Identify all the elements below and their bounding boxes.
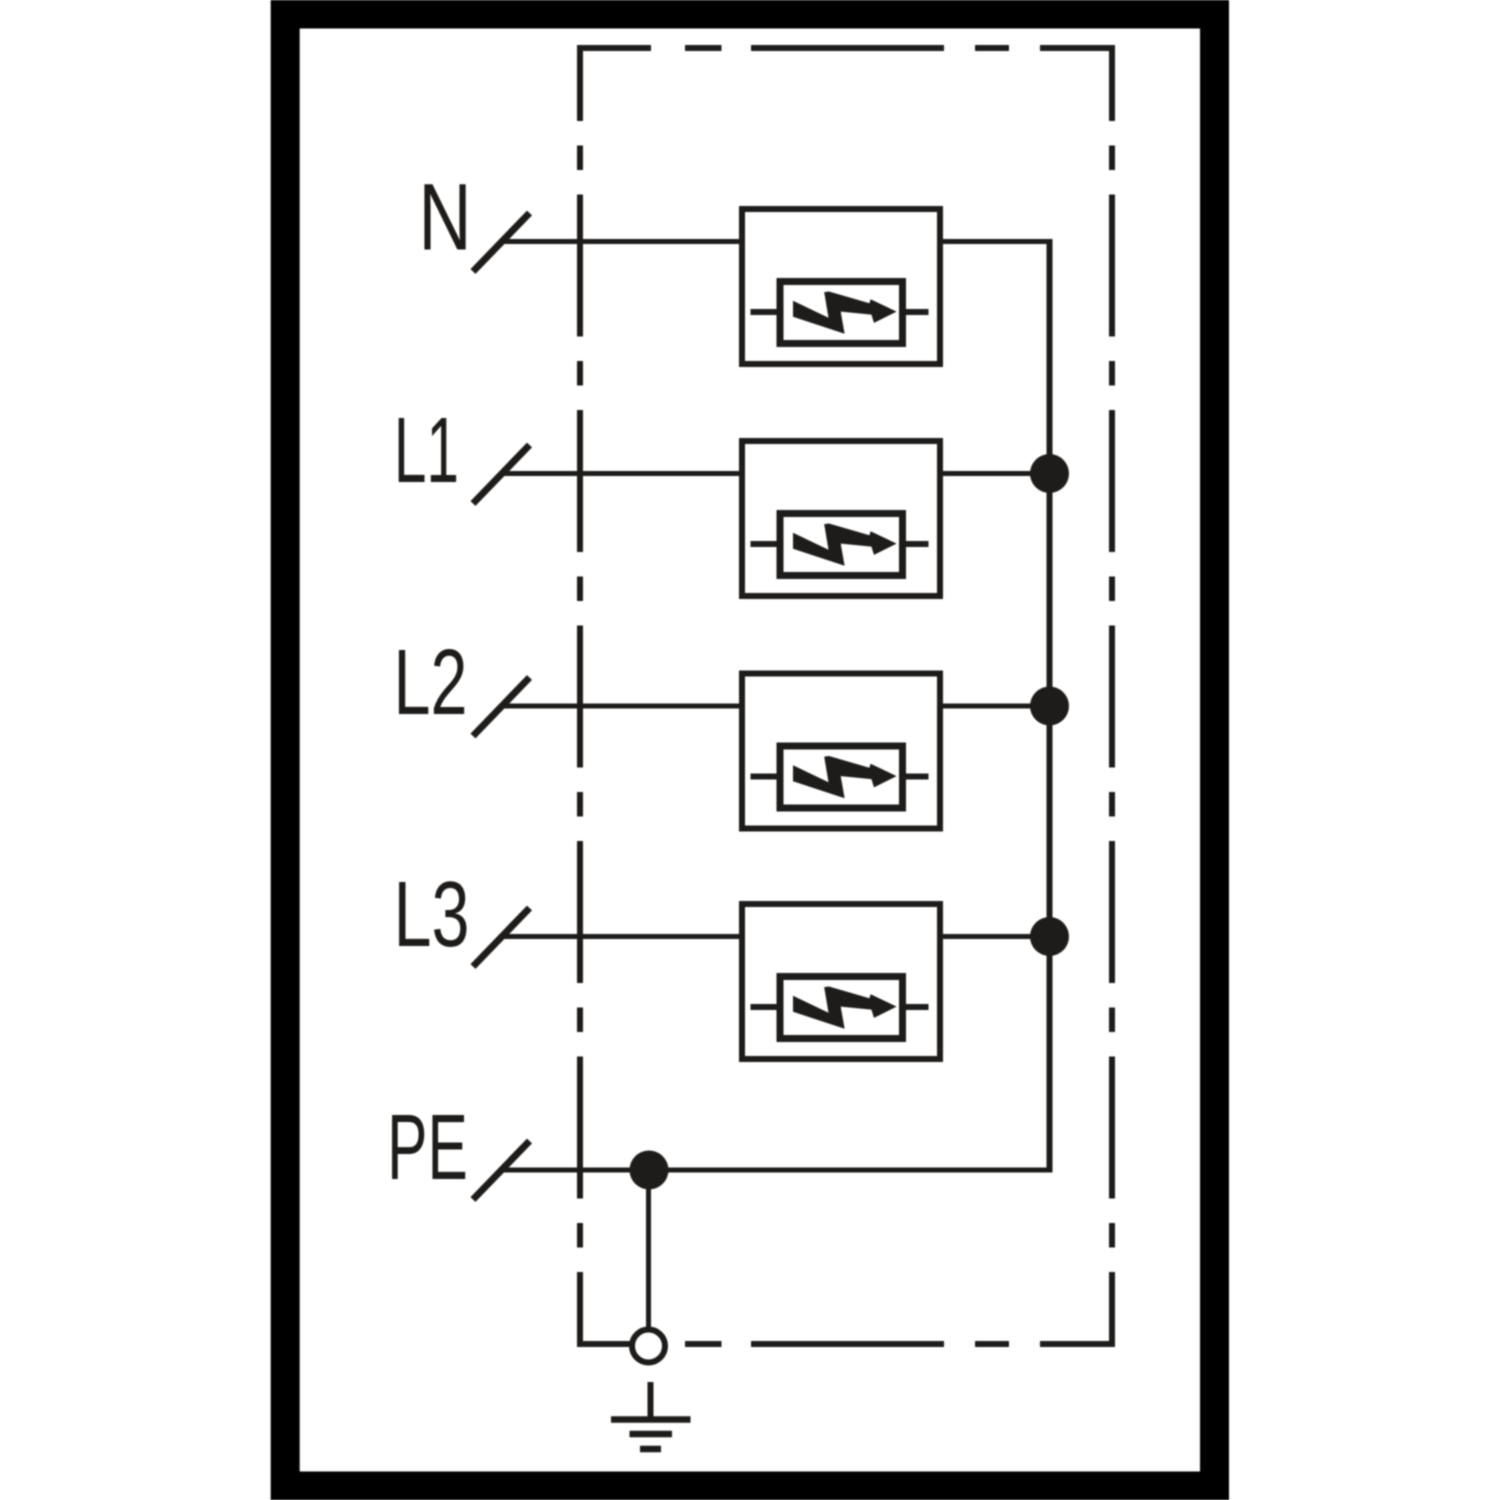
terminal slash L2: [473, 678, 530, 737]
terminal slash PE: [473, 1141, 530, 1200]
SPD module L3: [742, 904, 940, 1059]
SPD module N: [742, 209, 940, 364]
SPD module L2: [742, 674, 940, 829]
device boundary dash-dot box: right edge: [1109, 48, 1115, 1344]
junction dot L3/bus: [1030, 917, 1069, 956]
device boundary dash-dot box: top edge: [577, 45, 1115, 51]
wire PE to earth terminal: [646, 1170, 651, 1330]
wire L1 left: [504, 471, 745, 476]
earth terminal circle: [632, 1330, 665, 1363]
svg-text:L3: L3: [393, 863, 469, 967]
wire PE: [504, 1168, 1053, 1173]
wire N right: [937, 239, 1053, 244]
junction dot L2/bus: [1030, 687, 1069, 726]
bus wire (right vertical): [1047, 239, 1053, 1170]
wire N left: [504, 239, 745, 244]
terminal slash N: [473, 213, 530, 272]
junction dot PE: [630, 1151, 669, 1190]
wire L2 left: [504, 704, 745, 709]
SPD module L1: [742, 441, 940, 596]
svg-text:L2: L2: [394, 631, 468, 735]
wire L1 right: [937, 471, 1053, 476]
svg-text:N: N: [418, 165, 471, 271]
wire L3 left: [504, 934, 745, 939]
svg-text:PE: PE: [387, 1095, 468, 1199]
terminal slash L3: [473, 908, 530, 967]
device boundary dash-dot box: bottom edge: [577, 1341, 1115, 1347]
wire L3 right: [937, 934, 1053, 939]
junction dot L1/bus: [1030, 454, 1069, 493]
svg-text:L1: L1: [394, 399, 459, 502]
device boundary dash-dot box: left edge: [577, 48, 583, 1344]
wire L2 right: [937, 704, 1053, 709]
border frame: [285, 14, 1214, 1486]
terminal slash L1: [473, 445, 530, 504]
ground symbol: [611, 1382, 691, 1449]
